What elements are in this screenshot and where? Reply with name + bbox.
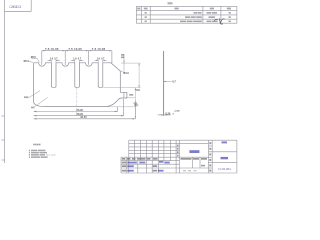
vertical column tiny chars	[177, 142, 211, 171]
small right-side vertical dim texts	[136, 89, 140, 91]
svg-text:R0.5: R0.5	[31, 56, 37, 59]
svg-text:30.20: 30.20	[80, 115, 87, 119]
lower-left rows	[121, 160, 179, 162]
right column row2 blue	[221, 157, 229, 159]
dimension arrows	[42, 50, 112, 51]
slot2 centerline	[76, 88, 78, 116]
revision grid horizontals	[129, 143, 209, 145]
revision grid verticals	[134, 140, 136, 160]
right column row1 blue	[222, 141, 228, 143]
table header texts	[137, 8, 231, 10]
svg-text:7.5 ±0.05: 7.5 ±0.05	[68, 47, 82, 51]
bottom dimension 26.20	[34, 107, 118, 112]
svg-text:±0.1, ±0.2: ±0.1, ±0.2	[46, 155, 56, 157]
blue signatures	[127, 161, 170, 172]
sheet left border line	[2, 0, 5, 163]
svg-text:CAB-ID-3: CAB-ID-3	[9, 5, 21, 9]
middle header words	[181, 158, 208, 160]
right end extension lines	[103, 63, 140, 119]
parts list table grid	[136, 6, 237, 23]
svg-text:7.5 ±0.05: 7.5 ±0.05	[92, 47, 106, 51]
bottom dimension 30.20 overall	[34, 101, 136, 119]
svg-text:0.25: 0.25	[165, 112, 170, 115]
table row texts	[145, 12, 231, 22]
small 0.5 dim right bottom	[134, 104, 138, 106]
svg-text:R0.3: R0.3	[24, 60, 30, 63]
leader 0.7	[164, 81, 172, 83]
vertical dim 1.6 at chamfer	[123, 54, 125, 71]
top-left drawing number box	[5, 0, 32, 11]
label R5 with leader	[31, 107, 35, 109]
svg-text:+0.04: +0.04	[174, 109, 180, 112]
table title text	[168, 2, 173, 4]
side view thin bar	[163, 51, 165, 116]
note line 1	[29, 150, 30, 152]
note line 4	[29, 156, 30, 158]
note line 3	[29, 154, 30, 156]
top dimension line 7.5 x3	[42, 51, 112, 65]
inner step line	[123, 92, 125, 98]
right vertical dim arrows	[135, 63, 140, 119]
middle cells	[191, 157, 193, 168]
svg-text:R1.6: R1.6	[124, 72, 130, 75]
notes title	[33, 144, 40, 146]
profile outline	[34, 63, 127, 107]
dim texts 7.5 +-0.05	[45, 47, 106, 51]
bottom dimension 28.20	[34, 99, 124, 116]
part name blue	[189, 150, 199, 153]
svg-text:LY-ZJ-001: LY-ZJ-001	[218, 167, 231, 171]
small slot width dims 1.6 / 0.7	[50, 59, 105, 61]
scale cell marks	[183, 165, 205, 171]
thickness dim 0.25	[158, 114, 171, 116]
svg-text:26.20: 26.20	[77, 108, 84, 112]
surface roughness symbol	[214, 18, 225, 24]
outer frame	[129, 139, 237, 141]
svg-text:7.5 ±0.05: 7.5 ±0.05	[45, 47, 59, 51]
note line 2	[29, 152, 30, 154]
row of header words in revision row	[122, 158, 158, 160]
designer rows	[122, 162, 157, 172]
vertical char column	[207, 140, 209, 173]
label R1.5 bottom-left with leader	[24, 96, 28, 98]
svg-text:0.7: 0.7	[172, 80, 176, 83]
